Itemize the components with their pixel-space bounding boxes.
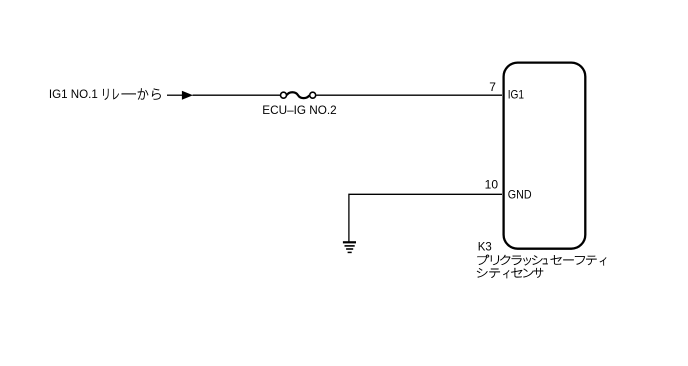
pin name IG1: [508, 88, 525, 102]
svg-text:10: 10: [485, 178, 499, 192]
label: city sensor japanese text line 2: [477, 268, 543, 278]
svg-text:IG1: IG1: [508, 88, 525, 102]
svg-text:7: 7: [489, 80, 496, 94]
label: riree-kara (from relay) japanese text: [103, 89, 160, 100]
wire from relay label to arrow: [167, 94, 183, 96]
pin name GND: [508, 188, 532, 202]
wire from arrow to fuse: [193, 94, 281, 96]
reference designator K3: [478, 240, 492, 254]
arrow signal direction: [182, 91, 193, 100]
label: pre-crash safety japanese text line 1: [478, 255, 606, 265]
wire from fuse to connector pin 7: [316, 94, 502, 96]
svg-text:IG1 NO.1: IG1 NO.1: [49, 87, 98, 101]
connector K3 body: [504, 63, 586, 249]
ground symbol: [343, 242, 356, 252]
wire from pin 10 to ground (horizontal + vertical): [349, 194, 502, 241]
svg-text:GND: GND: [508, 188, 532, 202]
pin number 7: [489, 80, 496, 94]
label: IG1 NO.1 relay source text: [49, 87, 98, 101]
label: fuse name ECU-IG NO.2: [262, 103, 337, 117]
svg-text:K3: K3: [478, 240, 492, 254]
svg-text:ECU–IG NO.2: ECU–IG NO.2: [262, 103, 337, 117]
pin number 10: [485, 178, 499, 192]
fuse ECU-IG NO.2: [281, 92, 316, 98]
